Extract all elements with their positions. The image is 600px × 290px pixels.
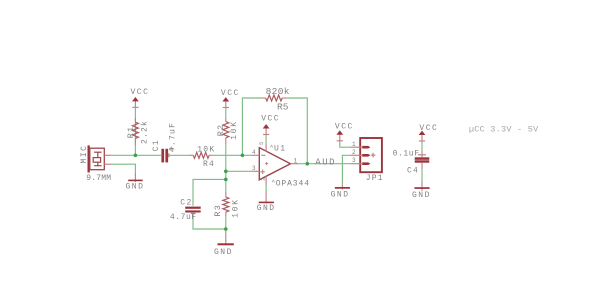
svg-text:2: 2	[260, 177, 267, 180]
svg-text:MIC: MIC	[80, 145, 89, 164]
svg-text:4.7uF: 4.7uF	[169, 122, 178, 153]
svg-text:R4: R4	[203, 160, 215, 169]
svg-text:4.7uF: 4.7uF	[170, 213, 197, 222]
svg-text:VCC: VCC	[221, 89, 240, 98]
svg-text:GND: GND	[412, 191, 431, 200]
svg-text:10K: 10K	[197, 146, 215, 155]
svg-text:µCC 3.3V - 5V: µCC 3.3V - 5V	[469, 125, 539, 135]
svg-text:10K: 10K	[230, 120, 239, 140]
svg-text:R2: R2	[216, 124, 226, 137]
svg-text:9.7MM: 9.7MM	[86, 174, 111, 183]
svg-text:2: 2	[352, 149, 356, 156]
svg-text:0.1uF: 0.1uF	[393, 149, 420, 158]
svg-text:C2: C2	[180, 198, 192, 207]
svg-text:JP1: JP1	[366, 174, 384, 183]
svg-text:3: 3	[252, 165, 256, 172]
svg-text:GND: GND	[331, 190, 350, 199]
svg-text:R3: R3	[213, 204, 223, 217]
svg-text:3: 3	[352, 157, 356, 164]
svg-text:AUD: AUD	[315, 157, 336, 167]
svg-text:OPA344: OPA344	[276, 179, 310, 188]
svg-text:1: 1	[352, 141, 356, 148]
svg-text:GND: GND	[126, 183, 145, 192]
svg-text:GND: GND	[214, 248, 233, 257]
svg-text:VCC: VCC	[261, 115, 280, 124]
svg-text:U1: U1	[274, 145, 286, 154]
svg-text:2.2k: 2.2k	[140, 120, 149, 144]
svg-text:VCC: VCC	[419, 124, 438, 133]
svg-text:R5: R5	[277, 102, 289, 113]
svg-text:820k: 820k	[266, 86, 290, 97]
svg-text:GND: GND	[257, 204, 276, 213]
svg-text:VCC: VCC	[335, 123, 354, 132]
svg-text:C4: C4	[407, 166, 419, 175]
svg-text:R1: R1	[126, 126, 136, 139]
svg-text:VCC: VCC	[131, 88, 150, 97]
svg-text:1: 1	[294, 158, 298, 165]
svg-text:C1: C1	[152, 139, 161, 151]
svg-text:5: 5	[258, 142, 265, 145]
svg-text:4: 4	[252, 149, 256, 156]
svg-text:10K: 10K	[231, 198, 240, 218]
